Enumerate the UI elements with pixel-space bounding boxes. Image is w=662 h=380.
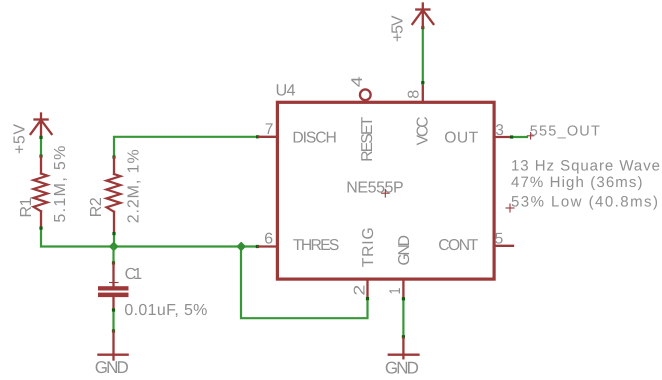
wire end nub: [112, 308, 115, 311]
wire end nub: [510, 135, 513, 138]
wire end nub: [256, 245, 259, 248]
pin 8 VCC stub: [422, 84, 424, 102]
wire end nub: [39, 155, 42, 158]
svg-text:GND: GND: [385, 358, 419, 377]
svg-text:CONT: CONT: [438, 237, 478, 254]
wire pin1 to GND: [402, 299, 404, 338]
pin 3 OUT stub: [494, 136, 511, 138]
wire end nub: [256, 135, 259, 138]
pin 6 THRES stub: [259, 245, 278, 247]
wire +5V to R1: [40, 137, 42, 157]
wire end nub: [112, 232, 115, 235]
svg-text:THRES: THRES: [293, 237, 340, 254]
IC origin cross: [382, 189, 390, 197]
svg-text:47% High (36ms): 47% High (36ms): [511, 174, 643, 191]
wire C1 to GND: [112, 310, 114, 332]
svg-text:5.1M, 5%: 5.1M, 5%: [52, 146, 69, 223]
pin 2 TRIG stub: [366, 279, 368, 299]
svg-text:5: 5: [495, 230, 504, 247]
wire end nub: [112, 156, 115, 159]
svg-text:VCC: VCC: [414, 116, 431, 145]
svg-text:GND: GND: [396, 235, 413, 266]
wire R1 to THRES rail: [41, 228, 259, 247]
+5V supply symbol (left): [31, 114, 52, 138]
wire end nub: [421, 26, 424, 29]
svg-text:53% Low (40.8ms): 53% Low (40.8ms): [511, 194, 658, 211]
ground symbol (right): [389, 338, 419, 358]
svg-text:R1: R1: [18, 197, 35, 217]
wire end nub: [402, 297, 405, 300]
pin 1 GND stub: [402, 279, 404, 299]
net label origin cross: [527, 133, 533, 139]
svg-text:13 Hz Square Wave: 13 Hz Square Wave: [511, 158, 660, 175]
svg-text:1: 1: [387, 288, 404, 295]
capacitor C1: [98, 263, 129, 310]
svg-text:8: 8: [405, 90, 422, 99]
wire end nub: [112, 261, 115, 264]
svg-text:+5V: +5V: [389, 15, 406, 42]
wire end nub: [112, 329, 115, 332]
svg-text:R2: R2: [88, 197, 105, 217]
wire end nub: [402, 335, 405, 338]
svg-text:C1: C1: [125, 266, 143, 283]
svg-text:3: 3: [495, 122, 504, 139]
svg-text:TRIG: TRIG: [360, 227, 377, 267]
svg-text:7: 7: [265, 121, 274, 138]
junction B (THRES/TRIG node): [236, 242, 246, 252]
svg-text:0.01uF, 5%: 0.01uF, 5%: [124, 302, 207, 319]
pin 4 RESET bubble: [360, 89, 371, 100]
op IC U4 NE555P box: [277, 102, 494, 279]
wire end nub: [39, 136, 42, 139]
wire end nub: [421, 81, 424, 84]
svg-text:+5V: +5V: [12, 124, 29, 154]
svg-text:GND: GND: [95, 358, 129, 377]
svg-text:6: 6: [264, 230, 273, 247]
resistor R1: [34, 157, 48, 229]
wire end nub: [366, 297, 369, 300]
svg-text:U4: U4: [276, 81, 296, 99]
svg-text:DISCH: DISCH: [292, 130, 337, 147]
wire VCC to +5V: [422, 28, 424, 85]
wire R2 to junction: [113, 234, 115, 247]
wire DISCH to R2: [114, 137, 259, 158]
svg-text:OUT: OUT: [444, 130, 478, 147]
svg-text:555_OUT: 555_OUT: [530, 124, 600, 140]
ground symbol (left): [99, 331, 128, 359]
svg-text:RESET: RESET: [359, 116, 376, 161]
resistor R2: [107, 157, 121, 233]
svg-text:NE555P: NE555P: [346, 180, 404, 197]
wire junction to C1: [112, 247, 114, 264]
svg-text:2.2M, 1%: 2.2M, 1%: [125, 149, 142, 223]
wire OUT to net label: [511, 136, 527, 138]
junction A (R1/R2/C1 node): [109, 242, 119, 252]
pin 5 CONT stub: [494, 245, 513, 247]
svg-text:4: 4: [349, 76, 366, 87]
note origin cross: [506, 204, 514, 212]
wire end nub: [39, 227, 42, 230]
svg-text:2: 2: [351, 285, 368, 296]
pin 7 DISCH stub: [259, 136, 277, 138]
+5V supply symbol (top): [412, 4, 433, 28]
wire TRIG loop: [241, 247, 368, 319]
